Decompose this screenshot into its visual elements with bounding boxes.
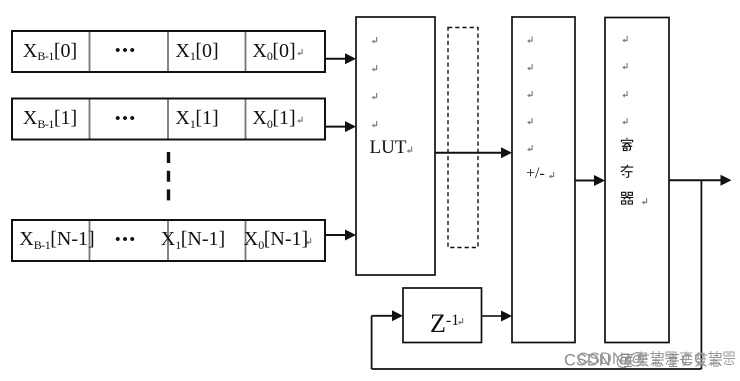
- watermark layer 1: [564, 352, 722, 370]
- pilcrow marks in register block: [622, 36, 627, 43]
- row 3 cell dividers: [90, 221, 246, 260]
- row 2 labels: [23, 108, 77, 128]
- pilcrow after X0[1] row 2: [297, 117, 302, 124]
- vertical ellipsis dashed line between row 2 and row 3: [167, 152, 170, 201]
- adder/subtractor block +/-: [512, 17, 575, 343]
- row 3 labels: [19, 229, 94, 249]
- Z-1 delay block: [403, 288, 482, 343]
- pilcrow marks in LUT block: [372, 37, 377, 44]
- wire adder to register: [575, 180, 594, 182]
- wire into Z-1 delay: [372, 315, 393, 317]
- row 2 cell dividers: [90, 100, 246, 139]
- Z-1 label: [430, 311, 459, 337]
- shift register row 2 box: [12, 99, 325, 140]
- glyph 器: [621, 192, 633, 204]
- wire Z-1 to adder: [482, 315, 502, 317]
- register block 寄存器: [605, 18, 669, 343]
- feedback bottom wire: [372, 368, 702, 370]
- row 1 labels: [23, 41, 77, 61]
- glyph 存: [621, 165, 633, 178]
- feedback left vertical wire: [371, 316, 373, 369]
- pilcrow after X0[0] row 1: [297, 49, 302, 56]
- wire row2 to LUT: [325, 126, 346, 128]
- row 1 cell dividers: [90, 32, 246, 71]
- wire row3 to LUT: [325, 234, 346, 236]
- shift register row 3 box: [12, 220, 325, 261]
- +/- label: [526, 166, 545, 182]
- LUT label: [370, 138, 407, 157]
- wire LUT to adder (through dashed block): [435, 152, 501, 154]
- pilcrow after X0[N-1] row 3: [306, 238, 311, 245]
- feedback branch vertical wire: [700, 180, 702, 369]
- LUT block: [356, 17, 435, 275]
- shift register row 1 box: [12, 31, 325, 72]
- output wire from register: [669, 179, 721, 181]
- dashed block (pipeline stage): [448, 28, 478, 248]
- wire row1 to LUT: [325, 58, 346, 60]
- watermark layer 2: [577, 350, 735, 368]
- glyph 寄: [621, 138, 633, 151]
- pilcrow marks in adder block: [527, 37, 532, 44]
